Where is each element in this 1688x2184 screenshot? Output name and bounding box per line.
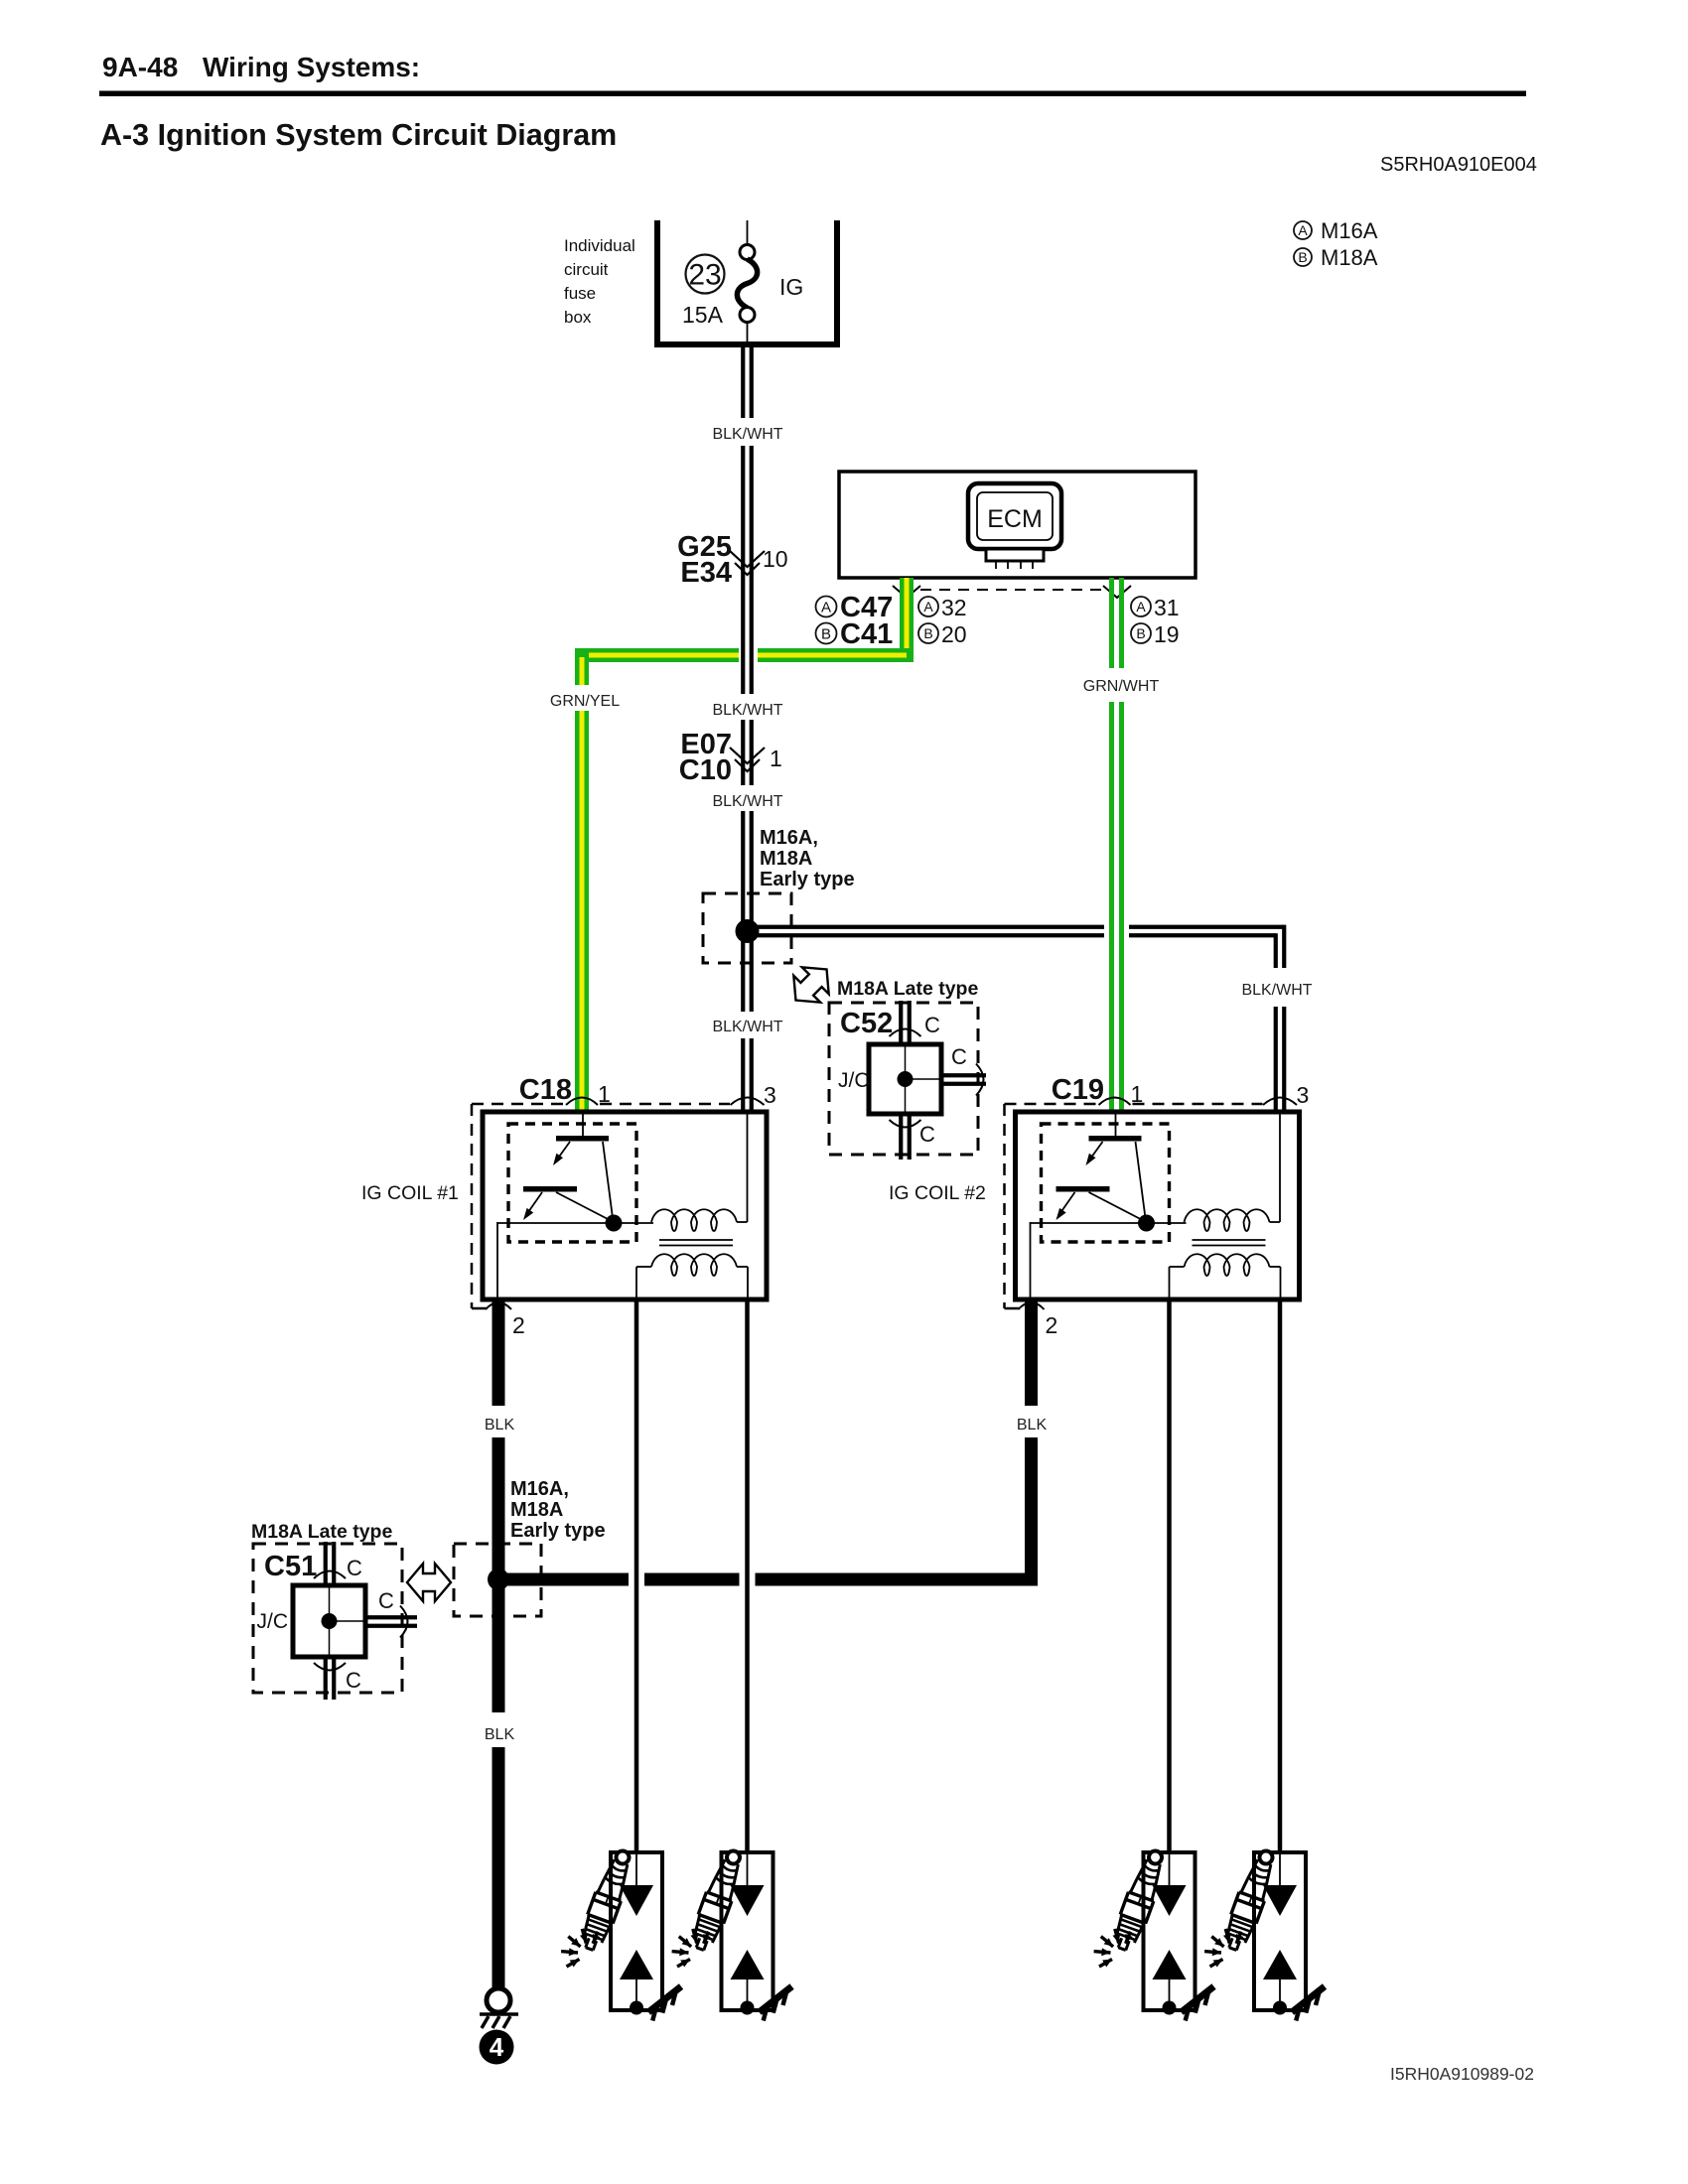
svg-text:A: A (821, 599, 831, 615)
svg-text:box: box (564, 308, 592, 327)
svg-text:circuit: circuit (564, 260, 609, 279)
svg-text:S5RH0A910E004: S5RH0A910E004 (1380, 154, 1537, 176)
wire BLK ground bus horizontal (504, 1573, 1038, 1586)
svg-text:1: 1 (770, 746, 782, 771)
svg-text:J/C: J/C (838, 1069, 870, 1092)
label BLK/WHT below fuse (712, 426, 782, 443)
svg-text:M16A: M16A (1321, 218, 1378, 243)
svg-text:15A: 15A (682, 302, 724, 328)
svg-text:E34: E34 (680, 557, 732, 589)
svg-text:BLK/WHT: BLK/WHT (712, 1019, 782, 1035)
svg-text:M16A,: M16A, (760, 827, 818, 849)
svg-text:I5RH0A910989-02: I5RH0A910989-02 (1390, 2064, 1534, 2084)
label GRN/WHT (1083, 678, 1160, 695)
junction early type dashed box (top) (703, 893, 791, 963)
svg-text:A-3 Ignition System Circuit Di: A-3 Ignition System Circuit Diagram (100, 118, 617, 152)
svg-text:20: 20 (941, 621, 967, 647)
legend B = M18A (1294, 245, 1378, 270)
wire BLK IG coil 2 pin 2 down to ground bus (1025, 1300, 1038, 1586)
label C18 (519, 1074, 572, 1106)
title A-3 Ignition System Circuit Diagram (100, 118, 617, 152)
label BLK/WHT above coil 1 (712, 1019, 782, 1035)
ground hatching (480, 2014, 518, 2028)
svg-text:IG COIL #2: IG COIL #2 (889, 1182, 986, 1204)
svg-text:J/C: J/C (257, 1610, 289, 1633)
ig coil 2 connector C19 and coil body (1005, 1081, 1310, 1338)
svg-text:31: 31 (1154, 595, 1180, 620)
connector G25/E34 pin 10 (677, 531, 787, 589)
svg-text:C19: C19 (1052, 1074, 1104, 1106)
svg-text:C: C (951, 1044, 967, 1069)
svg-text:M18A: M18A (1321, 245, 1378, 270)
note M18A Late type (C51) (251, 1521, 392, 1543)
wire BLK IG coil 1 pin 2 down to ground junction (492, 1299, 505, 1712)
label BLK (coil 2) (1017, 1417, 1048, 1433)
svg-text:C: C (919, 1122, 935, 1147)
svg-text:C51: C51 (264, 1551, 317, 1582)
label BLK (ground lead) (485, 1726, 515, 1743)
label BLK/WHT above coil 2 (1241, 982, 1312, 999)
svg-text:C10: C10 (679, 754, 732, 786)
svg-text:M18A Late type: M18A Late type (837, 978, 978, 1000)
label GRN/YEL (550, 693, 620, 710)
header rule (99, 91, 1526, 97)
svg-text:C: C (347, 1556, 362, 1580)
svg-text:A: A (1136, 599, 1146, 614)
label Individual circuit fuse box (564, 236, 635, 327)
svg-text:BLK/WHT: BLK/WHT (712, 426, 782, 443)
note M16A M18A Early type (ground junction) (510, 1478, 606, 1542)
ECM box U1 (839, 472, 1196, 578)
arrow pointer to C52 (782, 956, 840, 1014)
svg-text:B: B (1298, 249, 1307, 265)
label BLK/WHT above E07 (712, 702, 782, 719)
svg-text:BLK/WHT: BLK/WHT (1241, 982, 1312, 999)
svg-text:32: 32 (941, 595, 967, 620)
svg-text:BLK: BLK (1017, 1417, 1048, 1433)
svg-text:10: 10 (763, 546, 788, 572)
ground point badge 4 (480, 2030, 514, 2065)
junction dot (ground bus) (488, 1569, 509, 1590)
note M18A Late type (C52) (837, 978, 978, 1000)
wire BLK/WHT main vertical (fuse to IG coil 1 pin 3) (743, 347, 752, 1113)
svg-text:B: B (1136, 625, 1145, 641)
fuse F23 15A IG (682, 220, 803, 341)
svg-text:Early type: Early type (510, 1520, 606, 1542)
svg-text:C52: C52 (840, 1008, 893, 1039)
ECM icon (968, 483, 1061, 569)
svg-text:BLK/WHT: BLK/WHT (712, 702, 782, 719)
label C19 (1052, 1074, 1104, 1106)
wire IG coil 2 secondary to spark plug 3 (1167, 1297, 1172, 1855)
arrow pointer C51 to early type (407, 1564, 451, 1601)
ECM pin A32/B20 (918, 595, 967, 647)
figure code S5RH0A910E004 (1380, 154, 1537, 176)
wire IG coil 2 secondary to spark plug 4 (1278, 1297, 1283, 1855)
header: page number and section (102, 52, 420, 82)
svg-text:fuse: fuse (564, 284, 596, 303)
junction connector C52 (J/C) (829, 1001, 986, 1160)
wire BLK ground lead to body ground (492, 1747, 505, 1988)
junction connector C51 (J/C) (253, 1542, 417, 1700)
label BLK/WHT below E07 (712, 793, 782, 810)
svg-text:23: 23 (688, 259, 721, 292)
legend A = M16A (1294, 218, 1378, 243)
wire IG coil 1 secondary to spark plug 2 (745, 1297, 750, 1855)
ig coil 1 connector C18 and coil body (472, 1081, 776, 1338)
svg-text:IG: IG (779, 274, 803, 300)
connector dashed separation line under ECM (893, 586, 1131, 598)
svg-text:BLK: BLK (485, 1417, 515, 1433)
label BLK (coil 1) (485, 1417, 515, 1433)
svg-text:19: 19 (1154, 621, 1180, 647)
svg-text:C: C (346, 1668, 361, 1693)
label IG COIL #1 (361, 1182, 459, 1204)
ground terminal circle (487, 1988, 510, 2012)
note M16A M18A Early type (top junction) (760, 827, 855, 890)
svg-text:Wiring Systems:: Wiring Systems: (203, 52, 420, 82)
spark plug 3 (1094, 1846, 1214, 2020)
wire GRN/YEL (ECM pin 32/20 to IG coil 1 pin 1) (575, 578, 914, 1113)
svg-text:C18: C18 (519, 1074, 572, 1106)
svg-text:C41: C41 (840, 618, 893, 650)
junction dot (top) (736, 919, 760, 943)
connector E07/C10 pin 1 (679, 729, 782, 786)
svg-text:IG COIL #1: IG COIL #1 (361, 1182, 459, 1204)
svg-text:Individual: Individual (564, 236, 635, 255)
spark plug 4 (1204, 1846, 1325, 2020)
footer code I5RH0A910989-02 (1390, 2064, 1534, 2084)
wire GRN/WHT (ECM pin 31/19 to IG coil 2 pin 1) (1109, 578, 1124, 1113)
svg-text:A: A (1298, 222, 1308, 238)
svg-text:B: B (821, 625, 831, 642)
svg-text:C: C (924, 1013, 940, 1037)
svg-text:BLK/WHT: BLK/WHT (712, 793, 782, 810)
connector label A:C47 B:C41 (816, 592, 894, 650)
svg-text:C: C (378, 1588, 394, 1613)
ECM pin A31/B19 (1131, 595, 1180, 647)
spark plug 2 (672, 1846, 792, 2020)
svg-text:Early type: Early type (760, 869, 855, 890)
fuse box outline (individual circuit fuse box) (654, 220, 840, 347)
svg-text:GRN/YEL: GRN/YEL (550, 693, 620, 710)
junction early type dashed box (ground) (454, 1544, 541, 1616)
svg-text:GRN/WHT: GRN/WHT (1083, 678, 1160, 695)
svg-text:M18A: M18A (510, 1499, 563, 1521)
svg-text:B: B (923, 625, 932, 641)
label IG COIL #2 (889, 1182, 986, 1204)
svg-text:M18A Late type: M18A Late type (251, 1521, 392, 1543)
svg-text:M16A,: M16A, (510, 1478, 569, 1500)
svg-text:4: 4 (490, 2032, 504, 2062)
spark plug 1 (561, 1846, 681, 2020)
svg-text:9A-48: 9A-48 (102, 52, 178, 82)
svg-text:BLK: BLK (485, 1726, 515, 1743)
svg-text:ECM: ECM (987, 505, 1043, 533)
wire BLK/WHT horizontal (junction to IG coil 2 pin 3) (753, 925, 1284, 1113)
svg-text:A: A (923, 599, 933, 614)
svg-text:M18A: M18A (760, 848, 812, 870)
wire IG coil 1 secondary to spark plug 1 (634, 1297, 639, 1855)
